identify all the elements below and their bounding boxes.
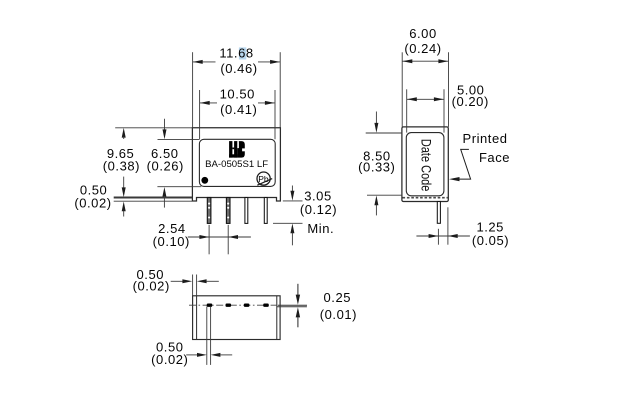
dim 3.05 upper arrow [291, 186, 293, 193]
dim 0.50 pin ext lines [206, 307, 208, 365]
bottom view pin 1 pad [207, 304, 213, 307]
bottom view left inner line [196, 296, 198, 340]
dim 2.54 line [188, 236, 251, 238]
pin 1 (front view, filled) [207, 198, 211, 224]
dim 0.50 lower arrow [122, 202, 126, 212]
dim 9.65 top arrow [122, 128, 126, 138]
dim 8.50 top arrow [375, 112, 377, 125]
svg-text:(0.33): (0.33) [358, 159, 395, 174]
dim 10.50 left arrow [200, 101, 210, 105]
svg-text:(0.10): (0.10) [153, 234, 190, 249]
dim 0.50 top line right segment [206, 280, 219, 282]
dim 8.50 bottom arrow [374, 196, 378, 206]
dim 11.68 right arrow [270, 60, 280, 64]
dim 3.05 lower arrow [290, 224, 294, 234]
svg-text:11.68: 11.68 [219, 45, 253, 60]
dim 5.00 arrows [407, 97, 417, 101]
logo HB on module [229, 141, 247, 158]
dim 2.54 left arrow [199, 235, 209, 239]
dim 10.50 left extension line [199, 90, 201, 139]
svg-text:10.50: 10.50 [220, 86, 255, 101]
side view body outline [402, 127, 448, 202]
dim 6.00 line [403, 60, 449, 62]
dim 9.65 top extension line [115, 127, 192, 129]
dim 5.00 right extension line [443, 89, 445, 132]
dim 11.68 right extension line [279, 52, 281, 128]
pin 4 (front view) [264, 198, 267, 224]
svg-text:(0.12): (0.12) [300, 202, 337, 217]
dim 5.00 line [407, 98, 444, 100]
dim 2.54 right arrow [228, 235, 238, 239]
svg-text:(0.26): (0.26) [147, 158, 184, 173]
dim 5.00 left extension line [406, 89, 408, 132]
front view module body outline [192, 128, 280, 201]
dim 0.25 lower arrow [296, 307, 300, 317]
svg-text:(0.02): (0.02) [133, 279, 170, 294]
pin 2 (front view, filled) [226, 198, 230, 224]
bottom view pin 3 pad [244, 304, 250, 307]
dim 0.50 top right arrow [197, 279, 207, 283]
printed face leader line [460, 149, 471, 179]
dim 11.68 left arrow [193, 60, 203, 64]
dim 8.50 bottom extension line [367, 194, 402, 196]
dim 0.50 bottom line left segment [186, 354, 197, 356]
pin 3 (front view) [245, 198, 248, 224]
svg-text:6.00: 6.00 [409, 26, 437, 41]
side view bottom dashed strip [403, 197, 449, 199]
svg-text:(0.05): (0.05) [472, 233, 509, 248]
dim 0.50 bottom line right segment [220, 354, 232, 356]
dim 0.50 bottom left arrow [197, 353, 207, 357]
pin 1 indicator dot [201, 177, 208, 184]
dim 0.50 standoff lower ext line [114, 200, 192, 202]
dim 6.50 top arrow [164, 119, 166, 131]
dim 6.50 bottom extension line [157, 186, 201, 188]
dim 0.50 top left arrow [182, 279, 192, 283]
dim 3.05 bottom extension line [273, 222, 303, 224]
svg-text:Min.: Min. [307, 221, 334, 236]
bottom view right inner line [276, 296, 278, 340]
dim 10.50 line right segment [258, 102, 275, 104]
dim 0.50 top line left segment [171, 280, 184, 282]
dim 6.50 bottom arrow [162, 187, 166, 197]
front view label face rounded rect [199, 139, 275, 186]
pin 2 centerline [227, 225, 229, 254]
svg-text:(0.46): (0.46) [220, 61, 257, 76]
dim 6.00 arrows [403, 59, 413, 63]
side view pin [437, 202, 440, 224]
svg-text:(0.20): (0.20) [452, 94, 489, 109]
dim 1.25 line [416, 235, 470, 237]
pin 1 centerline [208, 225, 210, 254]
dim 11.68 left extension line [192, 52, 194, 128]
svg-text:(0.01): (0.01) [320, 307, 357, 322]
bottom view offset line [277, 306, 307, 308]
bottom view body outline [193, 296, 281, 340]
dim 0.50 standoff upper ext line (thick) [114, 196, 193, 198]
svg-text:(0.38): (0.38) [103, 158, 140, 173]
highlight on 11.68 [239, 47, 246, 59]
bottom view pin 4 pad [263, 304, 269, 307]
dim 6.00 left extension line [401, 52, 403, 127]
svg-text:(0.02): (0.02) [74, 196, 111, 211]
svg-text:(0.41): (0.41) [220, 102, 257, 117]
bottom view pin 2 pad [226, 304, 232, 307]
side view face rounded rect [406, 133, 444, 196]
printed face leader arrow [449, 177, 460, 181]
svg-text:Date Code: Date Code [418, 139, 434, 192]
dim 0.25 upper arrow [297, 284, 299, 296]
svg-text:(0.02): (0.02) [151, 352, 188, 367]
dim 10.50 line left segment [200, 102, 217, 104]
dim 0.50 bottom right arrow [211, 353, 221, 357]
svg-text:BA-0505S1 LF: BA-0505S1 LF [205, 159, 268, 170]
dim 1.25 pin center extension line [437, 229, 439, 245]
dim 11.68 line left segment [193, 61, 216, 63]
dim 10.50 right arrow [265, 101, 275, 105]
dim 9.65 bottom arrow [123, 177, 125, 189]
dim 1.25 body edge extension line [447, 207, 449, 244]
Pb-free mark [257, 172, 272, 185]
svg-text:(0.24): (0.24) [404, 41, 441, 56]
bottom view left edge extensions up [192, 275, 194, 296]
bottom view centerline (dash-dot) [189, 304, 278, 306]
svg-text:Face: Face [479, 150, 510, 165]
dim 10.50 right extension line [274, 90, 276, 139]
svg-text:Printed: Printed [462, 131, 507, 146]
svg-text:0.25: 0.25 [324, 290, 352, 305]
dim 11.68 line right segment [258, 61, 280, 63]
dim 1.25 arrows [429, 234, 439, 238]
dim 6.50 top extension line [158, 138, 200, 140]
dim 8.50 top extension line [366, 132, 403, 134]
dim 6.00 right extension line [448, 52, 450, 127]
dim 3.05 top extension line [283, 200, 303, 202]
